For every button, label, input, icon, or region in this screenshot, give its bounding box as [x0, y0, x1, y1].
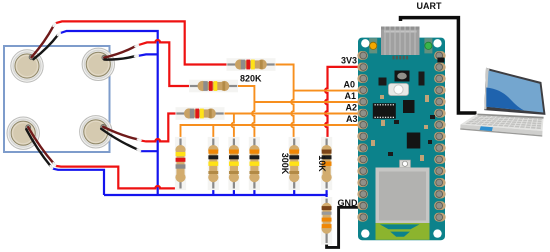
svg-text:300K: 300K: [280, 153, 290, 175]
svg-text:A1: A1: [344, 91, 356, 101]
svg-text:UART: UART: [417, 1, 442, 11]
svg-text:GND: GND: [338, 198, 359, 208]
svg-text:3V3: 3V3: [341, 56, 357, 66]
svg-text:A0: A0: [343, 79, 355, 89]
svg-text:10K: 10K: [317, 155, 327, 172]
svg-text:A2: A2: [345, 102, 357, 112]
svg-text:A3: A3: [346, 114, 358, 124]
svg-text:820K: 820K: [240, 73, 262, 83]
